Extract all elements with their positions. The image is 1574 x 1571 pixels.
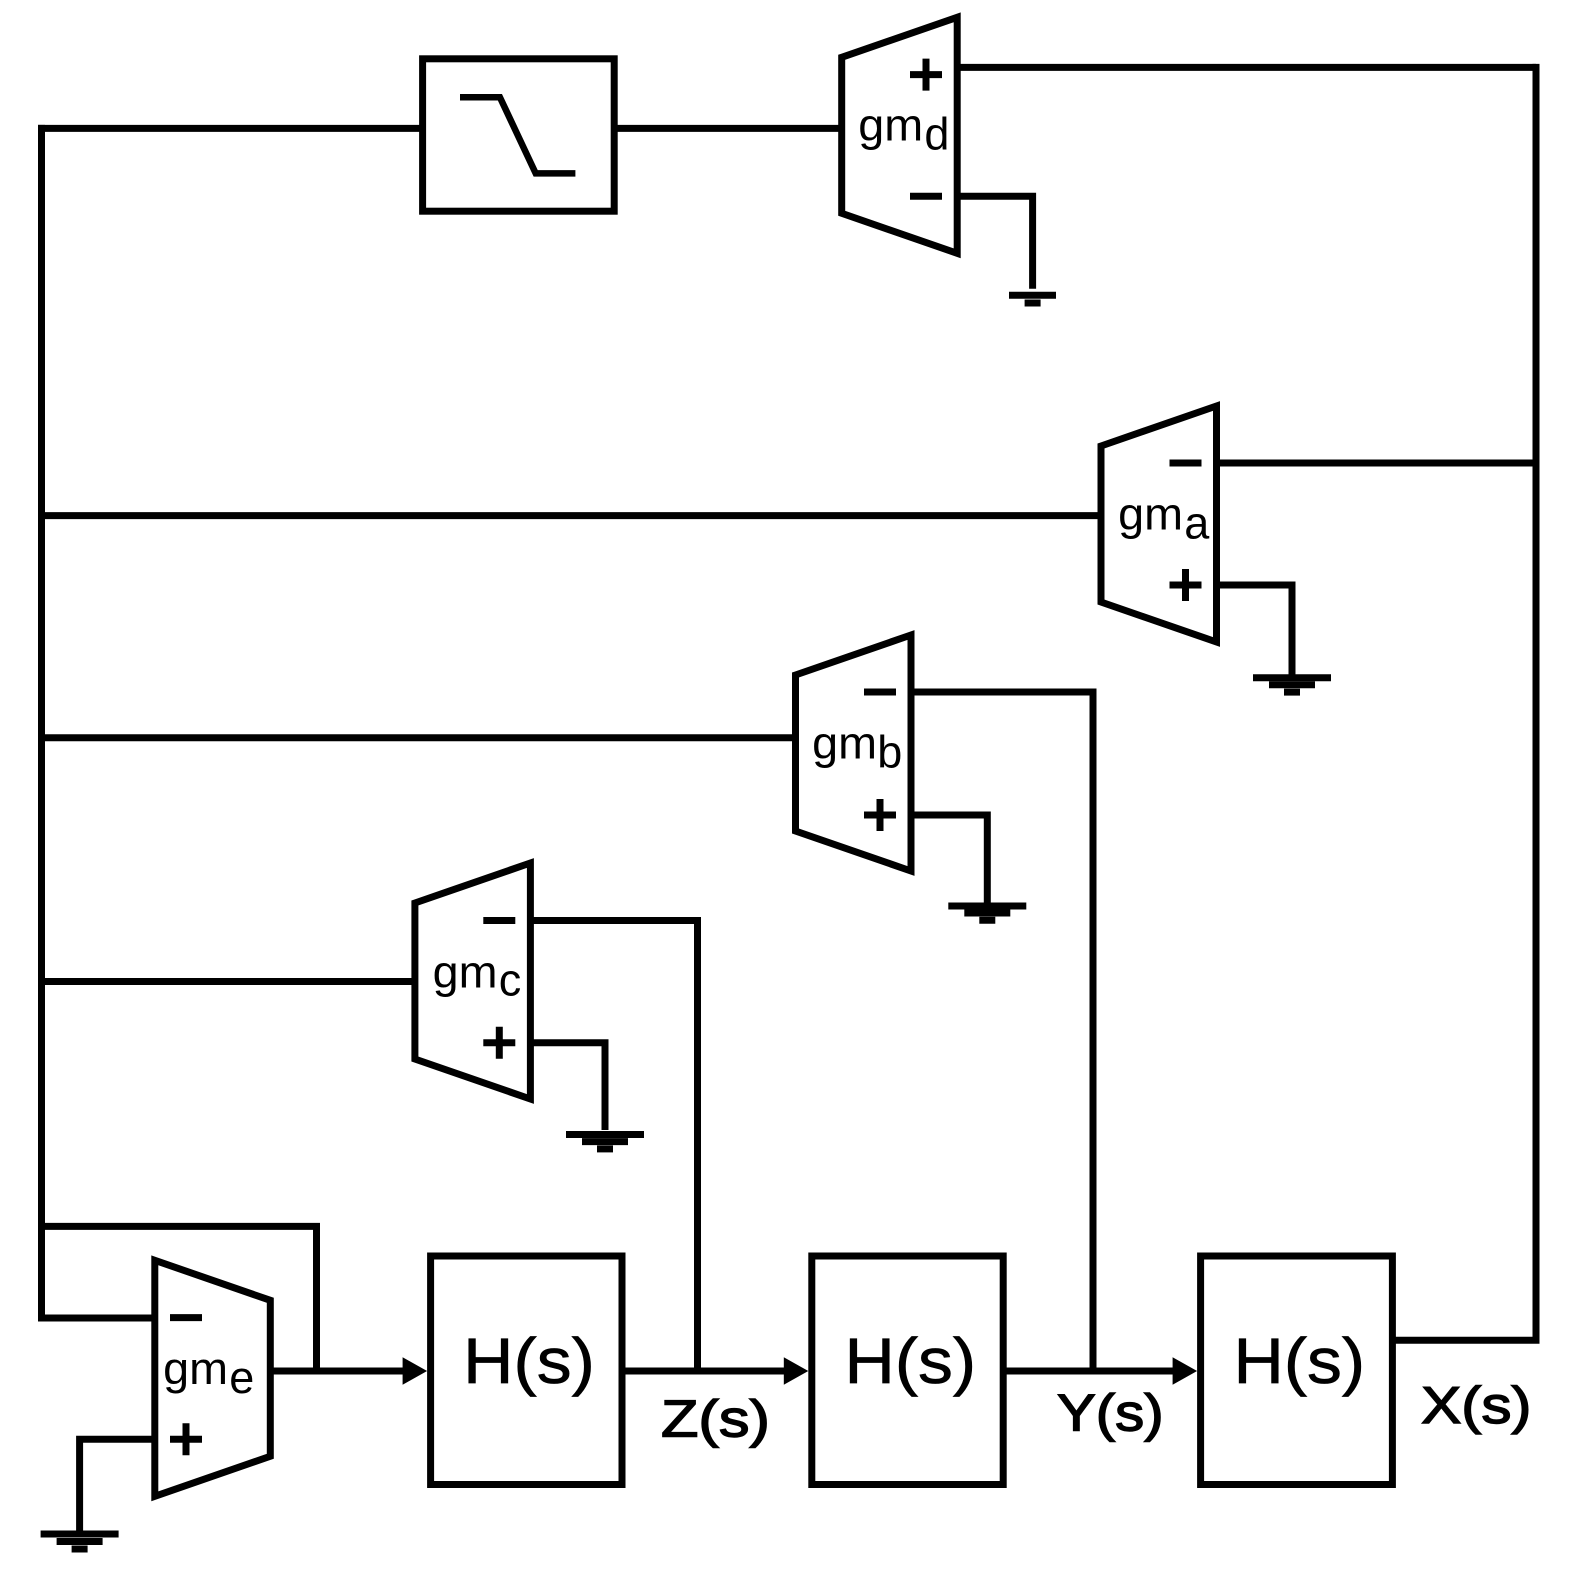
plus sign of gm_e [170,1423,202,1455]
wire gm_c input from left bus [42,978,415,985]
ground at gm_b [948,906,1026,920]
svg-text:b: b [877,727,902,778]
node X label X(s) [1421,1377,1531,1435]
wire gm_a minus output to right bus [1217,460,1537,467]
plus sign of gm_c [483,1027,515,1059]
wire filter output to gm_d [614,125,842,132]
wire gm_c minus output down to node Z [530,921,697,1372]
label H(s) of H3 [1234,1325,1366,1397]
node Z label Z(s) [661,1391,770,1449]
svg-text:H(s): H(s) [845,1325,977,1397]
svg-text:Y(s): Y(s) [1057,1384,1164,1442]
ground at gm_a [1253,678,1331,692]
filter response symbol inside F1 [460,97,575,173]
label H(s) of H1 [463,1325,595,1397]
wire gm_a plus to ground [1217,585,1293,675]
plus sign of gm_d [910,59,942,91]
label gm_d [858,100,949,160]
svg-text:gm: gm [812,718,877,769]
svg-text:H(s): H(s) [463,1325,595,1397]
minus sign of gm_d [910,193,942,200]
wire gm_b plus to ground [911,815,987,903]
ground at gm_c [566,1135,644,1149]
wire feedback from left bus to gm_e output node [42,1226,317,1371]
op-amp gm_e [155,1260,270,1496]
label gm_e [163,1343,254,1403]
wire left bus [38,125,45,1322]
node Y label Y(s) [1057,1384,1164,1442]
ground at gm_e [41,1534,119,1549]
label gm_a [1118,489,1210,549]
wire gm_d minus to ground [957,196,1032,288]
arrowhead into H1 [403,1357,428,1385]
svg-text:H(s): H(s) [1234,1325,1366,1397]
wire gm_b input from left bus [42,734,796,741]
wire gm_b minus output down to node Y [911,692,1093,1371]
op-amp gm_d [842,17,958,253]
op-amp gm_c [415,863,531,1099]
block H2 H(s) [812,1256,1003,1485]
arrowhead into H3 [1173,1357,1198,1385]
svg-text:gm: gm [1118,489,1183,540]
arrowhead into H2 [784,1357,809,1385]
minus sign of gm_c [483,917,515,924]
label gm_b [812,718,902,778]
svg-text:gm: gm [163,1343,228,1394]
minus sign of gm_b [864,689,896,696]
wire H1 output to H2 [622,1368,793,1375]
minus sign of gm_a [1170,460,1202,467]
svg-text:gm: gm [858,100,923,151]
wire top from bus to filter [38,125,423,132]
wire gm_a input from left bus [42,512,1102,519]
label H(s) of H2 [845,1325,977,1397]
wire gm_e plus to ground [80,1439,155,1530]
plus sign of gm_b [864,799,896,831]
wire right bus [1533,64,1540,1340]
svg-text:c: c [499,955,522,1006]
op-amp gm_a [1101,406,1217,642]
minus sign of gm_e [170,1314,202,1321]
block H3 H(s) [1201,1256,1393,1485]
wire gm_c plus to ground [530,1043,605,1130]
svg-text:X(s): X(s) [1421,1377,1531,1435]
svg-text:d: d [924,109,949,160]
low-pass filter block F1 [423,59,615,211]
wire gm_d plus output to right bus [957,64,1536,71]
svg-text:Z(s): Z(s) [661,1391,770,1449]
wire H3 output to right bus [1392,1337,1539,1344]
wire H2 output to H3 [1003,1368,1182,1375]
ground at gm_d [1009,295,1056,303]
block H1 H(s) [431,1256,622,1485]
op-amp gm_b [796,635,912,871]
wire gm_e output to H1 [270,1368,412,1375]
svg-text:a: a [1184,498,1210,549]
label gm_c [433,946,522,1005]
svg-text:e: e [229,1352,254,1403]
plus sign of gm_a [1170,569,1202,601]
wire gm_e minus input from left bus [42,1315,155,1322]
svg-text:gm: gm [433,946,498,997]
